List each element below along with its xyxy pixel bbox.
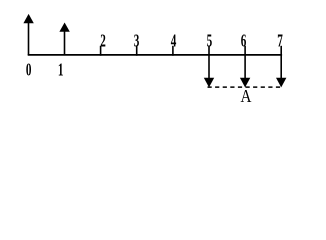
svg-text:0: 0 bbox=[26, 61, 32, 80]
dashed line joining arrow tips (annuity A) bbox=[208, 86, 283, 88]
down arrow at t=5 bbox=[204, 46, 214, 88]
svg-text:4: 4 bbox=[171, 32, 177, 51]
up arrow at t=1 bbox=[59, 23, 69, 55]
up arrow at t=0 bbox=[23, 14, 33, 55]
axis (time line 0 to 7) bbox=[28, 54, 282, 56]
svg-text:6: 6 bbox=[241, 32, 247, 51]
label A bbox=[241, 86, 252, 106]
svg-text:A: A bbox=[241, 86, 252, 106]
label 5 bbox=[207, 32, 213, 51]
label 0 bbox=[26, 61, 32, 80]
svg-text:2: 2 bbox=[100, 32, 106, 51]
tick 3 bbox=[136, 46, 138, 56]
tick 2 bbox=[100, 46, 102, 56]
svg-text:1: 1 bbox=[58, 61, 64, 80]
tick 4 bbox=[172, 46, 174, 56]
label 3 bbox=[134, 32, 140, 51]
down arrow at t=7 bbox=[276, 46, 286, 88]
label 1 bbox=[58, 61, 64, 80]
svg-text:3: 3 bbox=[134, 32, 140, 51]
svg-text:5: 5 bbox=[207, 32, 213, 51]
label 2 bbox=[100, 32, 106, 51]
label 7 bbox=[277, 32, 283, 51]
down arrow at t=6 bbox=[240, 46, 250, 88]
label 4 bbox=[171, 32, 177, 51]
label 6 bbox=[241, 32, 247, 51]
svg-text:7: 7 bbox=[277, 32, 283, 51]
